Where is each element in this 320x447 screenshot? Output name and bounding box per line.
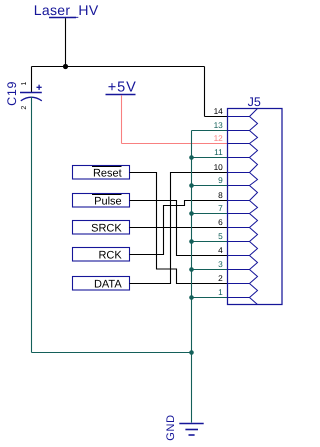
wire Reset net to pin 2 bbox=[130, 173, 228, 284]
svg-text:GND: GND bbox=[165, 414, 177, 441]
pin 10 stub bbox=[228, 172, 250, 174]
power port +5V bbox=[106, 79, 137, 95]
svg-text:5: 5 bbox=[218, 231, 223, 241]
svg-text:1: 1 bbox=[21, 81, 28, 85]
power port GND bbox=[165, 414, 204, 441]
wire Pulse net to pin 4 bbox=[130, 201, 228, 256]
pin 1 stub bbox=[228, 297, 250, 299]
wire RCK net to pin 8 bbox=[130, 201, 228, 255]
wire pin 9 bbox=[192, 185, 228, 187]
net label RCK bbox=[73, 248, 130, 262]
wire pin 1 bbox=[192, 297, 228, 299]
svg-text:Pulse: Pulse bbox=[94, 196, 122, 208]
svg-text:J5: J5 bbox=[248, 95, 261, 109]
pin 9 stub bbox=[228, 185, 250, 187]
svg-text:RCK: RCK bbox=[98, 250, 122, 262]
svg-text:6: 6 bbox=[218, 217, 223, 227]
wire Laser_HV stem bbox=[65, 18, 67, 66]
pin 12 stub bbox=[228, 143, 250, 145]
net label DATA bbox=[73, 277, 130, 291]
junction ground rail / bottom wire bbox=[189, 350, 194, 355]
pin 13 stub bbox=[228, 130, 250, 132]
pin 14 stub bbox=[228, 116, 250, 118]
connector J5 bbox=[228, 95, 283, 305]
wire SRCK net to pin 6 bbox=[130, 227, 228, 229]
capacitor C19 bbox=[5, 67, 42, 106]
svg-text:7: 7 bbox=[218, 203, 223, 213]
wire ground rail vertical bbox=[191, 131, 193, 423]
svg-text:2: 2 bbox=[218, 273, 223, 283]
junction pin 11 bbox=[189, 155, 194, 160]
pin 4 stub bbox=[228, 255, 250, 257]
svg-text:10: 10 bbox=[214, 162, 224, 172]
wire Laser_HV vertical to pin 14 bbox=[204, 67, 206, 117]
svg-text:9: 9 bbox=[218, 175, 223, 185]
wire ground net bottom horizontal bbox=[32, 352, 192, 354]
wire +5V vertical bbox=[121, 95, 123, 143]
junction pin 5 bbox=[189, 239, 194, 244]
junction pin 3 bbox=[189, 267, 194, 272]
svg-text:Reset: Reset bbox=[93, 168, 122, 180]
wire pin 11 bbox=[192, 157, 228, 159]
svg-text:1: 1 bbox=[218, 287, 223, 297]
pin 8 stub bbox=[228, 200, 250, 202]
net label Reset bbox=[73, 166, 130, 180]
wire pin 14 bbox=[205, 116, 228, 118]
svg-text:2: 2 bbox=[21, 106, 28, 110]
pin 3 stub bbox=[228, 269, 250, 271]
wire +5V to pin 12 bbox=[122, 143, 228, 145]
pin 7 stub bbox=[228, 213, 250, 215]
wire C19 to ground net (left vertical) bbox=[31, 97, 33, 353]
wire pin 7 bbox=[192, 213, 228, 215]
svg-text:13: 13 bbox=[214, 120, 224, 130]
wire pin 5 bbox=[192, 241, 228, 243]
svg-text:8: 8 bbox=[218, 190, 223, 200]
svg-text:Laser_HV: Laser_HV bbox=[34, 2, 99, 18]
junction Laser_HV node bbox=[63, 64, 68, 69]
svg-text:11: 11 bbox=[214, 147, 223, 157]
svg-text:12: 12 bbox=[214, 133, 224, 143]
net label Pulse bbox=[73, 194, 130, 208]
svg-text:DATA: DATA bbox=[94, 279, 122, 291]
power port Laser_HV bbox=[34, 2, 99, 18]
wire pin 13 bbox=[192, 130, 228, 132]
pin 11 stub bbox=[228, 157, 250, 159]
pin 2 stub bbox=[228, 283, 250, 285]
junction pin 7 bbox=[189, 211, 194, 216]
wire DATA net to pin 10 bbox=[130, 173, 228, 284]
wire Laser_HV horizontal bbox=[32, 66, 205, 68]
pin 6 stub bbox=[228, 227, 250, 229]
svg-text:14: 14 bbox=[214, 106, 224, 116]
junction pin 9 bbox=[189, 183, 194, 188]
svg-text:4: 4 bbox=[218, 245, 223, 255]
junction pin 1 bbox=[189, 295, 194, 300]
svg-text:3: 3 bbox=[218, 259, 223, 269]
net label SRCK bbox=[73, 221, 130, 235]
svg-text:SRCK: SRCK bbox=[91, 223, 122, 235]
svg-text:+5V: +5V bbox=[108, 79, 137, 95]
pin 5 stub bbox=[228, 241, 250, 243]
svg-text:C19: C19 bbox=[5, 81, 19, 106]
wire pin 3 bbox=[192, 269, 228, 271]
